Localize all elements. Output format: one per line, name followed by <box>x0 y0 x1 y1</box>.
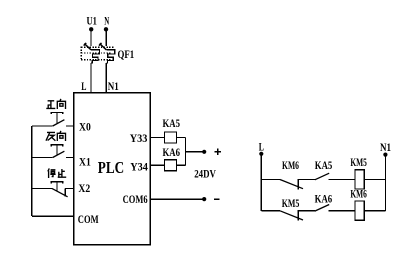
wire COM6 to minus terminal <box>150 198 204 200</box>
ladder left rail <box>260 154 262 211</box>
svg-text:KM6: KM6 <box>350 187 367 201</box>
plus sign <box>215 149 221 155</box>
rung 1 wire KA5 to KM5 coil <box>328 179 355 181</box>
svg-text:KM5: KM5 <box>350 155 367 169</box>
pushbutton SB2 (反向) plunger <box>51 145 63 156</box>
svg-text:KA5: KA5 <box>315 158 333 172</box>
wire U1 to QF1 <box>90 30 92 46</box>
contact KM6 bar <box>297 179 299 190</box>
wire Y34 to KA6 <box>150 164 164 166</box>
relay coil KA6 <box>165 160 177 171</box>
QF1 pole 2 blade <box>100 44 107 50</box>
terminal dot U1 <box>89 27 93 31</box>
plus terminal dot <box>202 150 206 154</box>
svg-text:L: L <box>81 79 86 93</box>
pushbutton SB1 blade <box>53 120 65 126</box>
QF1 pole 1 blade <box>84 44 91 50</box>
wire junction to plus terminal <box>186 151 205 153</box>
pushbutton SB2 blade <box>53 151 65 157</box>
svg-text:L: L <box>259 140 264 154</box>
wire SB1 to X0 <box>66 125 74 127</box>
relay coil KA5 <box>165 132 177 143</box>
label 停止 <box>48 168 66 178</box>
QF1 linkage dashed lines <box>81 47 114 60</box>
svg-text:KA6: KA6 <box>315 192 333 206</box>
QF1 pole 1 release meander <box>91 50 100 63</box>
svg-text:Y33: Y33 <box>130 131 148 145</box>
label 反向 <box>46 131 66 141</box>
rung 1 wire from left rail <box>261 179 280 181</box>
rung 1 wire KM6 to KA5 <box>298 179 315 181</box>
wire bus to COM <box>32 215 74 217</box>
QF1 pole 2 release meander <box>106 50 115 63</box>
rung 2 wire KA6 to KM6 coil <box>328 210 355 212</box>
wire bus to SB1 <box>32 125 53 127</box>
svg-text:KM6: KM6 <box>282 158 299 172</box>
rung 2 wire from left rail <box>261 210 280 212</box>
pushbutton SB1 (正向) plunger <box>51 112 63 123</box>
wire Y33 to KA5 <box>150 137 164 139</box>
svg-text:X0: X0 <box>79 120 91 134</box>
contact KA6 (NO) blade <box>315 205 329 212</box>
rung 2 wire coil to right rail <box>364 210 385 212</box>
svg-text:PLC: PLC <box>98 158 124 177</box>
minus sign <box>214 198 220 200</box>
wire N to QF1 <box>105 30 107 46</box>
terminal dot N <box>104 27 108 31</box>
svg-text:U1: U1 <box>87 14 97 28</box>
contact KA5 (NO) blade <box>315 173 329 180</box>
svg-text:24DV: 24DV <box>194 167 216 181</box>
QF1 pole 1 tick <box>84 43 87 46</box>
wire SB2 to X1 <box>66 157 74 159</box>
contact KM5 bar <box>297 210 299 221</box>
QF1 pole 2 tick <box>99 43 102 46</box>
junction vertical wire <box>185 138 187 166</box>
contact KM5 (NC) blade <box>280 211 303 220</box>
PLC box <box>74 93 151 245</box>
wire bus to SB3 <box>32 187 52 189</box>
contact KM6 (NC) blade <box>280 180 303 189</box>
wire N1 (QF1 to PLC) <box>105 63 107 93</box>
ladder right rail <box>384 155 386 211</box>
coil KM6 <box>355 201 364 220</box>
circuit breaker QF1 <box>81 43 134 63</box>
wire L (QF1 to PLC) <box>90 63 92 93</box>
svg-text:KM5: KM5 <box>282 196 300 210</box>
svg-text:Y34: Y34 <box>130 160 148 174</box>
svg-text:X1: X1 <box>79 155 91 169</box>
ladder L terminal dot <box>259 152 263 156</box>
label 正向 <box>46 99 65 109</box>
coil KM5 <box>355 170 364 189</box>
COM bus vertical wire <box>31 126 33 216</box>
rung 1 wire coil to right rail <box>364 179 385 181</box>
rung 2 wire KM5 to KA6 <box>298 210 315 212</box>
wire KA5 to junction <box>177 137 186 139</box>
svg-text:QF1: QF1 <box>118 47 135 61</box>
svg-text:X2: X2 <box>78 181 90 195</box>
pushbutton SB3 (停止) plunger <box>51 182 63 192</box>
svg-text:N1: N1 <box>108 79 119 93</box>
pushbutton SB3 blade (NC) <box>52 188 68 196</box>
minus terminal dot <box>202 197 206 201</box>
wire SB3 to X2 <box>65 187 74 189</box>
wire bus to SB2 <box>32 157 53 159</box>
pushbutton SB3 contact bar <box>64 188 66 196</box>
svg-text:N: N <box>104 14 109 28</box>
svg-text:KA5: KA5 <box>163 116 181 130</box>
svg-text:COM: COM <box>78 212 99 226</box>
wire KA6 to junction <box>177 164 186 166</box>
ladder N1 terminal dot <box>383 153 387 157</box>
svg-text:COM6: COM6 <box>123 192 148 206</box>
svg-text:KA6: KA6 <box>163 145 181 159</box>
svg-text:N1: N1 <box>380 140 391 154</box>
